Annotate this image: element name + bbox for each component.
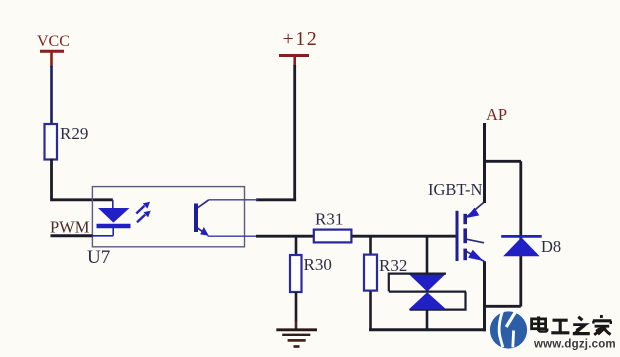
wire — [256, 198, 296, 201]
wire — [256, 235, 315, 238]
resistor R31 — [314, 230, 352, 243]
phototransistor side of U7 — [196, 200, 258, 236]
wire — [369, 292, 372, 330]
svg-text:www.dgzj.com: www.dgzj.com — [533, 339, 616, 351]
svg-text:D8: D8 — [541, 237, 561, 256]
bidirectional TVS diode — [389, 274, 466, 310]
node VCC — [37, 33, 70, 67]
watermark text zhi — [573, 317, 590, 334]
svg-text:R31: R31 — [315, 210, 343, 229]
watermark logo circle — [490, 310, 527, 348]
wire — [51, 234, 93, 237]
light arrows — [136, 202, 150, 223]
svg-text:AP: AP — [486, 105, 507, 124]
wire — [351, 235, 456, 238]
wire AP branch — [485, 160, 522, 163]
svg-text:R29: R29 — [60, 124, 88, 143]
wire bottom rail — [369, 328, 486, 331]
LED emitter side of U7 — [92, 200, 130, 236]
watermark text dian — [532, 316, 548, 331]
svg-text:R32: R32 — [379, 256, 407, 275]
svg-text:IGBT-N: IGBT-N — [428, 180, 482, 199]
optocoupler U7 box — [92, 187, 244, 247]
resistor R32 — [364, 255, 377, 291]
wire TVS top — [426, 236, 429, 274]
ground — [276, 330, 317, 347]
svg-text:+12: +12 — [283, 28, 319, 50]
wire R30 drop — [295, 236, 298, 255]
transistor IGBT Q1 — [457, 202, 484, 262]
wire emitter — [483, 261, 486, 331]
diode D8 — [501, 236, 542, 256]
wire — [295, 292, 298, 322]
svg-text:R30: R30 — [304, 255, 332, 274]
wire collector — [483, 123, 486, 203]
wire TVS bottom — [426, 310, 429, 330]
wire — [293, 65, 296, 200]
resistor R29 — [45, 124, 58, 160]
svg-text:U7: U7 — [87, 247, 110, 268]
wire — [52, 159, 113, 200]
svg-text:PWM: PWM — [50, 218, 90, 237]
wire — [50, 66, 53, 125]
watermark text gong — [551, 320, 569, 333]
resistor R30 — [290, 255, 302, 292]
wire emitter branch — [485, 305, 521, 308]
wire D8 vertical — [519, 161, 522, 306]
node +12 — [279, 28, 318, 66]
svg-text:VCC: VCC — [37, 33, 70, 50]
wire R32 drop — [369, 236, 372, 255]
watermark text jia — [593, 315, 611, 335]
